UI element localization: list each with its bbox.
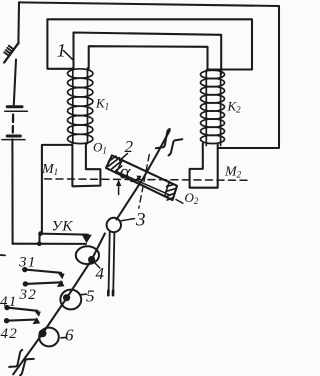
contact 4 ring (76, 246, 99, 264)
armature bar inner line (118, 172, 171, 195)
arrow 32 (57, 280, 65, 287)
arrow 41 (34, 310, 41, 317)
contact 4 pointer (95, 263, 100, 269)
coil K1 turns (68, 69, 93, 144)
contact line 42 (7, 320, 37, 321)
armature arm upper (117, 131, 170, 220)
svg-text:3: 3 (135, 210, 146, 231)
bar O2 tick (176, 200, 183, 204)
battery GB plate 2 long (2, 139, 25, 141)
svg-text:32: 32 (19, 287, 37, 303)
wire: outer loop top/right (19, 2, 279, 148)
switch S blade (4, 43, 18, 63)
junction dot feed (37, 242, 42, 247)
bar end cap O2 hatch (166, 184, 177, 200)
alpha arc arrowhead (136, 176, 141, 181)
dot 31 (22, 267, 27, 272)
dot 41 (4, 305, 9, 310)
contact 5 ring (60, 290, 81, 310)
wire: K1 inner lead (line B) (47, 19, 252, 69)
lever 3 pointer (121, 219, 134, 221)
contact line 31 (25, 270, 61, 273)
label 2 pointer (120, 154, 128, 161)
coil K2 rails (206, 70, 220, 146)
O1 gap arrowhead (116, 179, 121, 186)
alpha angle arc (131, 178, 139, 182)
svg-text:О2: О2 (185, 190, 199, 206)
switch handle hatch (4, 46, 14, 56)
arrow 31 (57, 272, 64, 279)
contact line 41 (7, 308, 38, 311)
svg-text:42: 42 (1, 326, 18, 342)
wire: battery down left side (11, 139, 13, 243)
arrow into contact 4 (82, 235, 92, 244)
wire: line D (89, 46, 208, 70)
wire: junction riser (38, 234, 40, 244)
svg-text:К2: К2 (227, 99, 242, 115)
svg-text:α: α (120, 160, 132, 184)
battery GB plate 1 short (7, 105, 22, 108)
arrow 42 (33, 317, 41, 324)
svg-text:2: 2 (125, 137, 134, 156)
junction dot UK (38, 231, 43, 236)
svg-text:М2: М2 (224, 165, 242, 180)
wire: line C (74, 33, 222, 75)
svg-text:М1: М1 (41, 162, 58, 177)
label 1 pointer (64, 51, 73, 60)
coil K1 rails (73, 68, 88, 144)
wire: UK horizontal (41, 234, 89, 235)
contact 6 dot (39, 330, 47, 338)
svg-text:УК: УК (52, 219, 74, 235)
svg-text:6: 6 (65, 326, 74, 345)
battery GB plate 2 short (7, 135, 20, 138)
dot 32 (23, 281, 28, 286)
O1 gap arrow stem (118, 186, 120, 195)
slide symbol bottom hooks (9, 350, 34, 375)
wire: K1 bottom lead to UK rail (42, 145, 73, 234)
pivot axis vertical dash-dot (139, 155, 150, 209)
contact 5 dot (63, 294, 70, 301)
battery GB plate 1 long (5, 110, 28, 112)
core M1 pole piece (72, 144, 100, 187)
svg-text:5: 5 (86, 287, 95, 306)
contact 3 fork prongs (109, 232, 115, 294)
wire: switch to battery (14, 60, 16, 105)
armature arm lower (13, 234, 105, 375)
bar end cap O1 inner edge (117, 160, 123, 173)
wire: switch upper lead (17, 2, 20, 43)
wire: bottom feed to contact 4 (13, 243, 86, 245)
contact line 32 (25, 282, 62, 284)
svg-text:4: 4 (96, 264, 105, 283)
slide symbol top hooks (156, 129, 183, 156)
dot 42 (4, 318, 9, 323)
contact 3 blob (107, 218, 121, 232)
contact 6 ring (39, 328, 59, 347)
core M2 pole piece (190, 144, 218, 188)
battery GB dotted middle (12, 115, 15, 133)
bar end cap O1 hatch (108, 156, 121, 171)
svg-text:1: 1 (57, 41, 67, 62)
coil K2 turns (201, 70, 225, 143)
edge artifact (0, 254, 5, 256)
bar end cap O2 inner edge (165, 181, 170, 196)
armature bar 2 outline (106, 155, 177, 200)
svg-text:31: 31 (18, 254, 36, 270)
contact 5 dash (81, 293, 87, 296)
contact 6 dash (61, 336, 67, 338)
svg-text:41: 41 (0, 294, 17, 310)
svg-text:О1: О1 (93, 140, 107, 156)
svg-text:К1: К1 (95, 96, 109, 112)
fork prong tips (108, 291, 113, 296)
dashed magnetic axis (45, 179, 251, 180)
contact 4 dot (88, 256, 95, 263)
